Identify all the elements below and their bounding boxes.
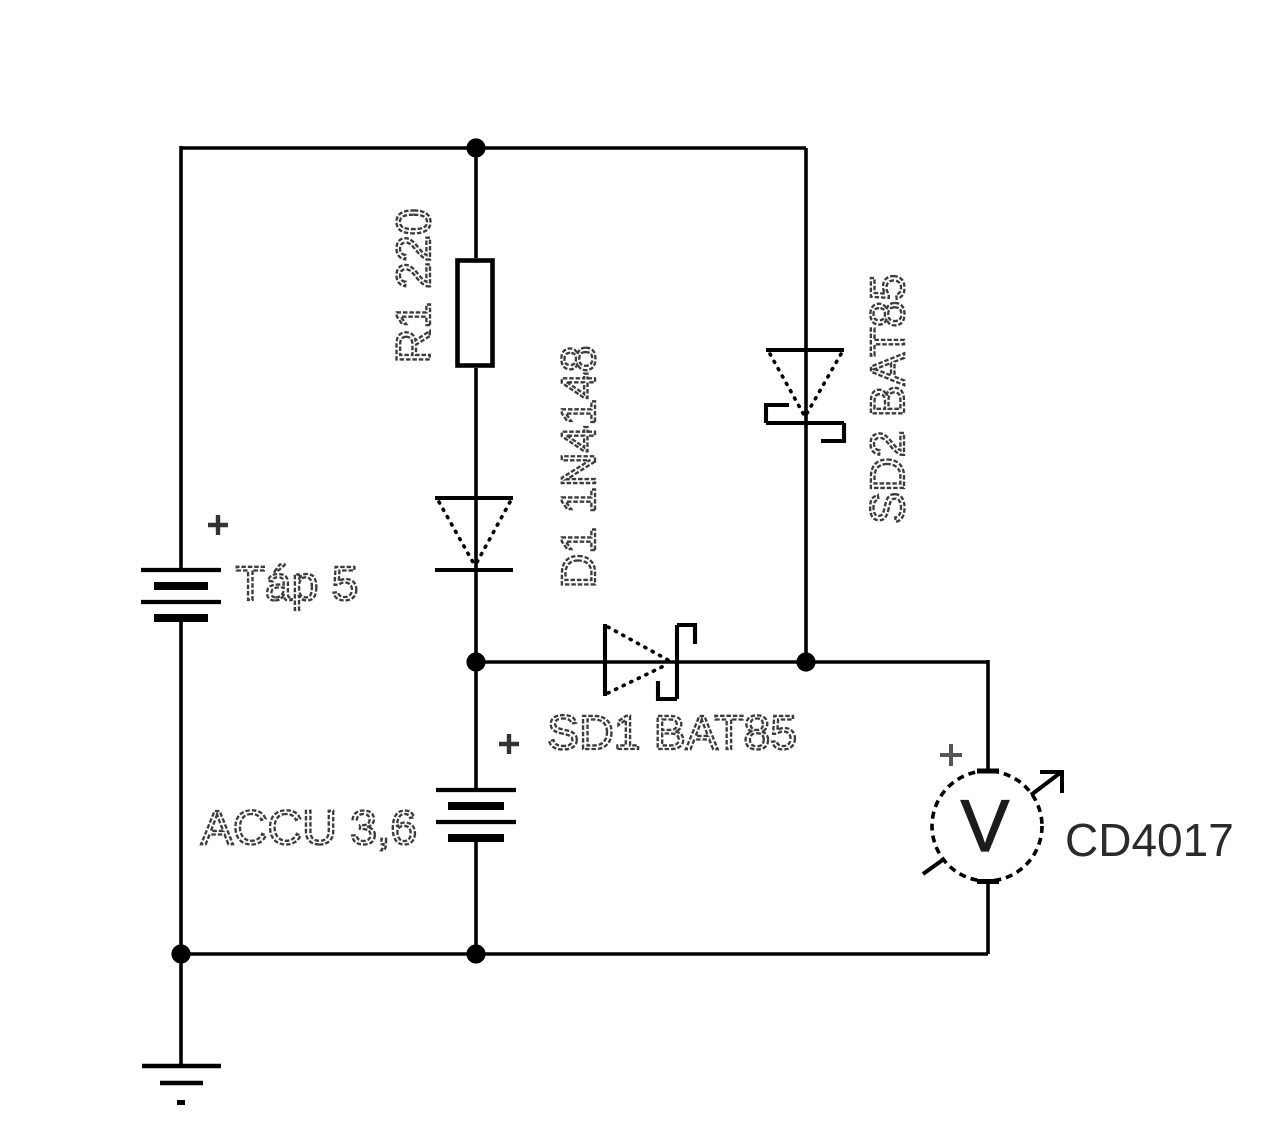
- diode D1: [435, 498, 513, 570]
- ground: [142, 1066, 221, 1105]
- battery Tap 5: [141, 570, 221, 618]
- svg-text:D1 1N4148: D1 1N4148: [553, 346, 606, 589]
- svg-text:SD2 BAT85: SD2 BAT85: [862, 274, 915, 524]
- wire SD2 column: [804, 148, 808, 662]
- wire voltmeter column upper: [986, 660, 990, 772]
- svg-text:Táp 5: Táp 5: [236, 558, 359, 611]
- wire left rail lower: [179, 618, 183, 1066]
- svg-text:V: V: [961, 786, 1010, 867]
- voltmeter arrow: [923, 772, 1062, 874]
- voltmeter U1: [932, 771, 1042, 882]
- wire top rail: [181, 146, 806, 150]
- junction node middle left: [466, 652, 485, 671]
- schottky diode SD1: [605, 624, 695, 699]
- plus sign Tap 5: [208, 515, 228, 535]
- schottky diode SD2: [766, 350, 844, 441]
- junction node bottom mid: [466, 944, 485, 963]
- wire bottom rail: [181, 952, 988, 956]
- battery ACCU 3,6: [436, 790, 516, 838]
- plus sign voltmeter: [940, 744, 962, 766]
- svg-text:ACCU 3,6: ACCU 3,6: [201, 802, 417, 855]
- svg-text:SD1 BAT85: SD1 BAT85: [547, 707, 797, 760]
- wire R1/D1 column mid: [474, 368, 478, 790]
- wire ACCU column lower: [474, 838, 478, 954]
- junction node top: [466, 138, 485, 157]
- wire voltmeter column lower: [986, 881, 990, 954]
- wire R1/D1 column upper: [474, 148, 478, 258]
- junction node bottom left: [171, 944, 190, 963]
- wire left rail upper: [179, 146, 183, 570]
- junction node middle right: [796, 652, 815, 671]
- svg-text:CD4017: CD4017: [1065, 814, 1234, 866]
- plus sign ACCU: [499, 734, 519, 754]
- resistor R1: [458, 261, 493, 366]
- wire middle rail: [476, 660, 988, 664]
- svg-text:R1 220: R1 220: [388, 209, 441, 364]
